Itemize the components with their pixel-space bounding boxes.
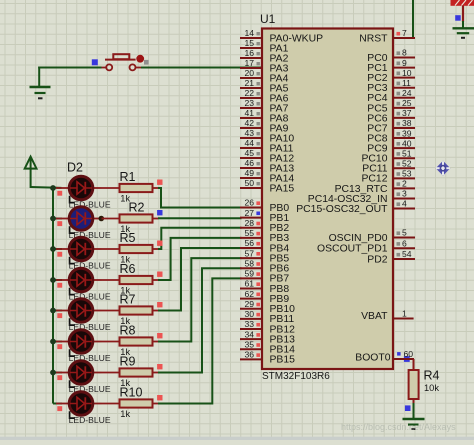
junction (bus, row 4): [50, 277, 56, 283]
svg-text:R9: R9: [120, 355, 136, 369]
svg-text:10: 10: [402, 68, 412, 78]
junction (bus, row 3): [50, 246, 56, 252]
svg-text:11: 11: [402, 78, 411, 88]
svg-text:R7: R7: [120, 293, 136, 307]
label U1 (reference): [260, 12, 276, 26]
svg-text:58: 58: [244, 258, 254, 268]
svg-text:3: 3: [402, 189, 407, 199]
svg-text:34: 34: [244, 329, 254, 339]
pin 30 (PB11): [240, 309, 294, 325]
svg-text:33: 33: [244, 319, 254, 329]
red state square (LED D9 left): [57, 406, 62, 411]
svg-text:38: 38: [402, 118, 412, 128]
svg-text:R10: R10: [120, 386, 143, 400]
pin 54 (PD2): [367, 249, 415, 265]
pin 21 (PA5): [240, 78, 289, 94]
pin 17 (PA3): [240, 58, 289, 74]
blue state square (R4 bottom net): [405, 405, 411, 411]
svg-text:28: 28: [244, 218, 254, 228]
svg-text:BOOT0: BOOT0: [355, 353, 390, 364]
pin 46 (PA13): [240, 158, 294, 174]
wire vertical LED supply bus: [52, 187, 54, 404]
wire R2 to PB1: [158, 217, 242, 219]
svg-text:51: 51: [402, 148, 412, 158]
svg-text:2: 2: [402, 179, 407, 189]
wire R10 to PB7: [158, 278, 242, 403]
svg-text:1k: 1k: [120, 409, 130, 419]
blue state square (button left net, logic low): [92, 59, 98, 65]
pin 16 (PA2): [240, 48, 289, 64]
resistor R8 1k: [102, 337, 159, 345]
LED D6 (LED-BLUE): [56, 299, 102, 323]
svg-text:R8: R8: [120, 324, 136, 338]
pin 23 (PA7): [240, 98, 289, 114]
red state square (LED D6 left): [57, 313, 62, 318]
label R5: [120, 231, 136, 245]
pin 42 (PA9): [240, 118, 289, 134]
wire bus to LED row 8: [53, 403, 62, 405]
svg-text:60: 60: [404, 349, 414, 359]
label LED-BLUE (D9 value): [69, 411, 111, 425]
wire bus to LED row 2: [53, 218, 62, 220]
svg-text:U1: U1: [260, 12, 276, 26]
svg-text:53: 53: [402, 169, 412, 179]
svg-text:4: 4: [402, 199, 407, 209]
svg-text:PA15: PA15: [270, 183, 295, 194]
pin 20 (PA4): [240, 68, 289, 84]
pin 14 (PA0-WKUP): [240, 28, 323, 44]
svg-text:61: 61: [244, 279, 254, 289]
power terminal (up arrow): [25, 157, 37, 188]
pin 3 (PC14-OSC32_IN): [308, 189, 415, 205]
pin 40 (PC9): [367, 138, 415, 154]
pin 53 (PC12): [362, 169, 416, 185]
pin 8 (PC0): [367, 48, 415, 64]
label R6: [120, 262, 136, 276]
label 1k (R7 value): [120, 316, 130, 326]
svg-text:36: 36: [244, 350, 254, 360]
red state square (LED D7 left): [57, 344, 62, 349]
pin 37 (PC6): [367, 108, 415, 124]
pin 59 (PB7): [240, 269, 289, 285]
junction (bus, row 2): [50, 216, 56, 222]
resistor R5 1k: [102, 245, 159, 253]
svg-text:NRST: NRST: [359, 33, 388, 44]
LED D3 (LED-BLUE): [56, 207, 102, 231]
pin 27 (PB1): [240, 208, 289, 224]
pin 28 (PB2): [240, 218, 289, 234]
blue state square (battery net): [455, 15, 461, 21]
svg-text:R2: R2: [129, 201, 145, 215]
svg-text:20: 20: [244, 68, 254, 78]
label LED-BLUE (D3 value): [69, 226, 111, 240]
label 1k (R10 value): [120, 409, 130, 419]
wire R4 to ground: [413, 399, 415, 419]
svg-text:54: 54: [402, 249, 412, 259]
pin 11 (PC3): [367, 78, 415, 94]
pin 15 (PA1): [240, 38, 289, 54]
svg-text:7: 7: [402, 28, 407, 38]
battery / power element (cut off at top edge): [451, 0, 474, 22]
label LED-BLUE (D4 value): [69, 257, 111, 271]
svg-text:40: 40: [402, 138, 412, 148]
op-amp U1 body (STM32F103R6 MCU): [262, 29, 393, 370]
watermark: [341, 422, 456, 432]
wire R7 to PB4: [158, 248, 242, 311]
label LED-BLUE (D6 value): [69, 318, 111, 332]
red state square (R5 right net): [157, 241, 162, 246]
svg-text:PC15-OSC32_OUT: PC15-OSC32_OUT: [296, 204, 388, 215]
svg-text:10k: 10k: [424, 383, 439, 393]
label R1: [120, 170, 136, 184]
ground (top left): [30, 67, 51, 99]
svg-text:VBAT: VBAT: [361, 311, 388, 322]
pin 10 (PC2): [367, 68, 415, 84]
resistor R9 1k: [102, 368, 159, 376]
svg-text:OSCIN_PD0: OSCIN_PD0: [329, 233, 388, 244]
pin 36 (PB15): [240, 350, 295, 366]
svg-text:27: 27: [244, 208, 254, 218]
label LED-BLUE (D5 value): [69, 288, 111, 302]
LED D5 (LED-BLUE): [56, 268, 102, 292]
pin 24 (PC4): [367, 88, 415, 104]
resistor R7 1k: [102, 306, 159, 314]
pin 4 (PC15-OSC32_OUT): [296, 199, 415, 215]
pin 38 (PC7): [367, 118, 415, 134]
wire power arrow to LED D2 anode: [31, 186, 62, 189]
pin 58 (PB6): [240, 258, 289, 274]
svg-text:8: 8: [402, 48, 407, 58]
wire bus to LED row 7: [53, 372, 62, 374]
LED D8 (LED-BLUE): [56, 361, 102, 385]
LED D9 (LED-BLUE): [56, 392, 102, 416]
label LED-BLUE (D8 value): [69, 380, 111, 394]
LED D7 (LED-BLUE): [56, 330, 102, 354]
wire R8 to PB5: [158, 258, 242, 341]
svg-text:25: 25: [402, 98, 412, 108]
svg-text:R6: R6: [120, 262, 136, 276]
svg-text:42: 42: [244, 118, 254, 128]
red state square (LED D8 left): [57, 375, 62, 380]
pin 9 (PC1): [367, 58, 415, 74]
pin 55 (PB3): [240, 228, 289, 244]
pin 2 (PC13_RTC): [335, 179, 415, 195]
svg-text:37: 37: [402, 108, 412, 118]
pin 5 (OSCIN_PD0): [329, 228, 415, 244]
label 1k (R1 value): [120, 194, 130, 204]
wire bus to LED row 4: [53, 279, 62, 281]
gray state square (button right): [144, 60, 149, 65]
svg-text:30: 30: [244, 309, 254, 319]
svg-text:OSCOUT_PD1: OSCOUT_PD1: [317, 244, 388, 255]
label 1k (R8 value): [120, 347, 130, 357]
junction (LED D3 cathode / R2): [99, 216, 105, 222]
svg-text:16: 16: [244, 48, 254, 58]
svg-text:PB15: PB15: [270, 355, 296, 366]
svg-text:45: 45: [244, 148, 254, 158]
blue state square (R2 right net): [157, 210, 162, 215]
label LED-BLUE (D7 value): [69, 349, 111, 363]
wire R1 to PB0: [158, 188, 242, 208]
label 1k (R2 value): [120, 224, 130, 234]
svg-text:23: 23: [244, 98, 254, 108]
wire BOOT0 to R4: [413, 359, 415, 371]
svg-text:17: 17: [244, 58, 254, 68]
pin 41 (PA8): [240, 108, 289, 124]
pin 43 (PA10): [240, 128, 294, 144]
pin 61 (PB8): [240, 279, 289, 295]
svg-text:21: 21: [244, 78, 254, 88]
pin 6 (OSCOUT_PD1): [317, 238, 415, 254]
red state square (LED D2 left): [57, 191, 62, 196]
label 1k (R9 value): [120, 378, 130, 388]
label R2: [129, 201, 145, 215]
resistor R1 1k: [102, 184, 159, 192]
svg-text:52: 52: [402, 158, 412, 168]
svg-text:6: 6: [402, 238, 407, 248]
wire R5 to PB2: [158, 228, 242, 249]
label 1k (R6 value): [120, 286, 130, 296]
junction (bus, row 5): [50, 308, 56, 314]
pin 1 (VBAT): [361, 309, 413, 322]
svg-text:41: 41: [244, 108, 254, 118]
resistor R10 1k: [102, 399, 159, 407]
pin 45 (PA12): [240, 148, 294, 164]
pin 39 (PC8): [367, 128, 415, 144]
pin 49 (PA14): [240, 168, 294, 184]
wire bus to LED row 6: [53, 341, 62, 343]
svg-text:44: 44: [244, 138, 254, 148]
red state square (R1 right net): [157, 180, 162, 185]
svg-text:29: 29: [244, 299, 254, 309]
wire battery to ground terminal: [462, 21, 464, 28]
resistor R4 10k: [409, 370, 419, 399]
svg-text:55: 55: [244, 228, 254, 238]
label STM32F103R6 (value): [262, 371, 330, 382]
junction (bus, row 7): [50, 370, 56, 376]
pin 34 (PB13): [240, 329, 295, 345]
red state square (R6 right net): [157, 272, 162, 277]
pin 22 (PA6): [240, 88, 289, 104]
svg-text:26: 26: [244, 198, 254, 208]
svg-text:R1: R1: [120, 170, 136, 184]
svg-text:50: 50: [244, 178, 254, 188]
pin 52 (PC11): [362, 158, 415, 174]
svg-text:5: 5: [402, 228, 407, 238]
svg-text:43: 43: [244, 128, 254, 138]
label 10k (R4 value): [424, 383, 439, 393]
pin 35 (PB14): [240, 339, 295, 355]
svg-text:46: 46: [244, 158, 254, 168]
bottom edge band: [0, 437, 474, 440]
svg-text:15: 15: [244, 38, 254, 48]
pin 57 (PB5): [240, 248, 289, 264]
pin 25 (PC5): [367, 98, 415, 114]
svg-text:22: 22: [244, 88, 254, 98]
wire bus to LED row 5: [53, 310, 62, 312]
svg-text:62: 62: [244, 289, 254, 299]
red state square (R10 right net): [157, 395, 162, 400]
svg-text:R5: R5: [120, 231, 136, 245]
junction (bus, row 6): [50, 339, 56, 345]
pin 33 (PB12): [240, 319, 295, 335]
pin 29 (PB10): [240, 299, 295, 315]
label R9: [120, 355, 136, 369]
svg-text:9: 9: [402, 58, 407, 68]
wire ground to button (net PA3 left): [38, 67, 101, 69]
svg-text:R4: R4: [424, 369, 440, 383]
wire NRST to top edge: [412, 0, 414, 38]
svg-text:STM32F103R6: STM32F103R6: [262, 371, 330, 382]
resistor R2 1k: [102, 214, 159, 222]
label D2 (reference): [67, 161, 83, 175]
pin 50 (PA15): [240, 178, 294, 194]
wire R9 to PB6: [158, 268, 242, 372]
resistor R6 1k: [102, 276, 159, 284]
label R7: [120, 293, 136, 307]
red state square (R7 right net): [157, 302, 162, 307]
pin 62 (PB9): [240, 289, 289, 305]
red state square (LED D5 left): [57, 283, 62, 288]
svg-text:39: 39: [402, 128, 412, 138]
svg-text:24: 24: [402, 88, 412, 98]
svg-text:35: 35: [244, 339, 254, 349]
LED D4 (LED-BLUE): [56, 237, 102, 261]
red state square (R9 right net): [157, 364, 162, 369]
red state square (LED D3 left): [57, 221, 62, 226]
pin 7 (NRST): [359, 28, 415, 44]
label R8: [120, 324, 136, 338]
svg-text:1: 1: [402, 309, 407, 319]
svg-text:56: 56: [244, 238, 254, 248]
pin 51 (PC10): [362, 148, 416, 164]
junction (bus, row 1): [50, 185, 56, 191]
wire bus to LED row 3: [53, 248, 62, 250]
svg-text:14: 14: [244, 28, 254, 38]
push-button (SPST, PA3 to GND): [102, 54, 145, 70]
red state square (R8 right net): [157, 333, 162, 338]
svg-text:49: 49: [244, 168, 254, 178]
LED D2 (LED-BLUE): [56, 176, 102, 200]
svg-text:57: 57: [244, 248, 254, 258]
svg-text:LED-BLUE: LED-BLUE: [69, 415, 111, 425]
red state square (LED D4 left): [57, 252, 62, 257]
label LED-BLUE (D2 value): [69, 196, 111, 210]
wire button to pin 17 PA3: [141, 67, 262, 69]
svg-text:D2: D2: [67, 161, 83, 175]
pin 56 (PB4): [240, 238, 289, 254]
cursor origin marker: [436, 161, 451, 176]
svg-text:https://blog.csdn.net/Alexays: https://blog.csdn.net/Alexays: [341, 422, 456, 432]
pin 26 (PB0): [240, 198, 289, 214]
svg-text:59: 59: [244, 269, 254, 279]
label 1k (R5 value): [120, 255, 130, 265]
ground (top right): [453, 28, 474, 38]
pin 60 (BOOT0): [355, 349, 414, 364]
svg-text:PD2: PD2: [367, 254, 387, 265]
wire R6 to PB3: [158, 238, 242, 280]
pin 44 (PA11): [240, 138, 294, 154]
label R4: [424, 369, 440, 383]
label R10: [120, 386, 143, 400]
ground (bottom right): [403, 419, 425, 429]
